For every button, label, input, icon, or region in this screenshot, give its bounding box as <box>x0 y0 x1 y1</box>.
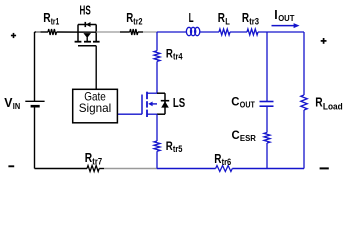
svg-text:HS: HS <box>80 3 91 18</box>
svg-text:I: I <box>274 7 277 22</box>
svg-text:V: V <box>4 95 13 110</box>
svg-text:Load: Load <box>323 101 343 111</box>
svg-text:R: R <box>126 11 133 25</box>
svg-text:C: C <box>231 97 239 109</box>
svg-text:R: R <box>43 11 50 25</box>
svg-text:LS: LS <box>173 95 186 110</box>
svg-text:Signal: Signal <box>79 101 112 115</box>
svg-text:C: C <box>232 130 240 142</box>
svg-text:R: R <box>242 11 249 25</box>
svg-text:tr4: tr4 <box>173 52 183 62</box>
svg-text:R: R <box>315 96 322 110</box>
svg-text:L: L <box>225 16 230 26</box>
svg-text:L: L <box>189 11 194 25</box>
svg-text:ESR: ESR <box>240 134 256 143</box>
svg-text:OUT: OUT <box>278 13 295 23</box>
svg-text:tr2: tr2 <box>133 16 142 26</box>
svg-text:IN: IN <box>13 101 20 111</box>
svg-text:R: R <box>218 11 225 25</box>
svg-text:tr7: tr7 <box>92 156 102 166</box>
svg-text:tr6: tr6 <box>222 157 232 167</box>
svg-text:tr1: tr1 <box>51 16 60 26</box>
svg-text:tr3: tr3 <box>249 16 259 26</box>
svg-text:R: R <box>214 152 221 166</box>
svg-text:tr5: tr5 <box>173 144 183 154</box>
svg-text:OUT: OUT <box>240 100 255 109</box>
svg-text:R: R <box>85 151 92 165</box>
